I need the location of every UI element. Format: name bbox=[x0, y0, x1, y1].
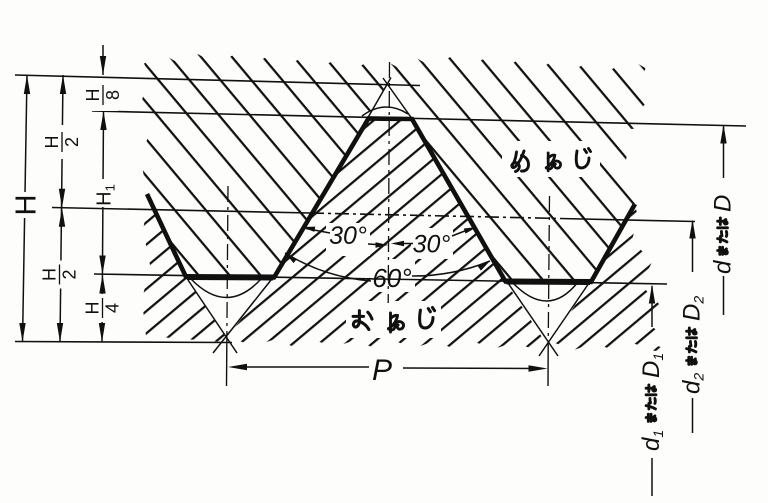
crest (apex) centerline bbox=[388, 62, 389, 303]
sharp-crest reference line (top) bbox=[15, 75, 420, 86]
label H/2 lower bbox=[40, 261, 80, 289]
left root extension lines bbox=[188, 280, 237, 353]
svg-text:d: d bbox=[710, 260, 737, 274]
label d or D bbox=[710, 195, 737, 274]
female thread label (menegi) bbox=[512, 149, 591, 172]
pitch line d2/D2 right segment bbox=[560, 219, 695, 222]
right leader lines (d, d2, d1) bbox=[652, 126, 724, 496]
right root extension lines bbox=[508, 283, 558, 356]
angle value labels bbox=[329, 222, 450, 387]
svg-text:H: H bbox=[83, 302, 103, 315]
H/2 dimension line bbox=[60, 75, 63, 342]
apex extension left flank bbox=[366, 78, 391, 122]
H dimension line bbox=[23, 75, 28, 342]
arrowheads bbox=[19, 56, 726, 372]
minor diameter line d1/D1 bbox=[94, 274, 667, 284]
d1 leader line bbox=[651, 286, 653, 327]
right root centerline bbox=[548, 196, 549, 345]
30/60 degree annotation lines and arcs bbox=[285, 229, 490, 282]
svg-text:8: 8 bbox=[103, 90, 123, 100]
svg-text:30°: 30° bbox=[329, 222, 367, 250]
major diameter line d/D bbox=[92, 111, 746, 126]
P dimension line bbox=[237, 367, 538, 369]
chain centerlines bbox=[227, 62, 550, 345]
female thread hatched region (nut) bbox=[141, 54, 653, 282]
d leader line bbox=[723, 126, 725, 178]
H/8 upper arrow line bbox=[102, 45, 104, 75]
svg-text:H: H bbox=[42, 136, 62, 149]
left root centerline bbox=[227, 186, 228, 345]
svg-text:60°: 60° bbox=[372, 263, 411, 293]
svg-text:2: 2 bbox=[62, 137, 82, 147]
label H/8 bbox=[83, 79, 123, 111]
male thread hatched region (bolt) bbox=[142, 120, 674, 353]
label d1 or D1 bbox=[638, 353, 666, 451]
nut rounded-root arc at crest bbox=[362, 107, 408, 116]
d2 leader line bbox=[692, 221, 694, 272]
thick thread profile bbox=[147, 119, 635, 283]
svg-text:30°: 30° bbox=[413, 231, 451, 259]
label d2 or D2 bbox=[679, 296, 707, 394]
label H/2 upper bbox=[42, 125, 82, 159]
svg-text:D: D bbox=[710, 195, 737, 212]
bolt rounded-root arc left bbox=[191, 279, 261, 298]
label H bbox=[11, 192, 43, 218]
svg-text:H: H bbox=[83, 89, 103, 102]
text halos bbox=[326, 141, 600, 387]
svg-text:H: H bbox=[40, 268, 60, 281]
svg-text:2: 2 bbox=[60, 269, 80, 279]
thin construction lines bbox=[15, 75, 746, 343]
heavier root flats bbox=[187, 277, 590, 282]
apex extension right flank bbox=[383, 78, 414, 122]
thin profile extensions and root/crest arcs bbox=[188, 78, 589, 357]
svg-text:4: 4 bbox=[103, 303, 123, 313]
label H/4 bbox=[83, 294, 123, 322]
pitch line d2/D2 left segment bbox=[52, 208, 310, 214]
svg-text:H: H bbox=[11, 195, 43, 216]
male thread label (onegi) bbox=[353, 308, 434, 332]
sharp-root reference line (bottom left) bbox=[15, 342, 232, 343]
P extension lines bbox=[227, 345, 549, 386]
svg-text:P: P bbox=[372, 354, 392, 387]
bolt rounded-root arc right bbox=[512, 282, 578, 301]
left dimension lines bbox=[23, 45, 104, 342]
label H1 bbox=[92, 179, 118, 207]
pitch line d2/D2 chain segment bbox=[310, 213, 560, 219]
H1 and H/4 dimension line bbox=[102, 111, 104, 342]
